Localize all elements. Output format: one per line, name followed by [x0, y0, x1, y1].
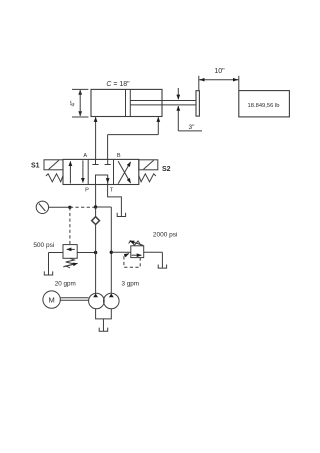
- svg-text:3": 3": [189, 124, 196, 131]
- svg-text:S1: S1: [31, 162, 40, 169]
- svg-text:A: A: [83, 153, 87, 159]
- svg-text:10": 10": [214, 68, 225, 75]
- svg-text:C = 18": C = 18": [106, 81, 130, 88]
- svg-text:500 psi: 500 psi: [33, 242, 54, 249]
- svg-text:M: M: [48, 295, 54, 304]
- svg-text:3 gpm: 3 gpm: [121, 281, 139, 288]
- svg-text:18.849,56 lb: 18.849,56 lb: [248, 103, 280, 109]
- svg-text:4": 4": [70, 100, 77, 107]
- svg-text:B: B: [117, 153, 121, 159]
- svg-text:T: T: [110, 187, 114, 193]
- svg-text:P: P: [85, 187, 89, 193]
- svg-text:S2: S2: [162, 166, 171, 173]
- svg-text:20 gpm: 20 gpm: [55, 281, 76, 288]
- svg-text:2000 psi: 2000 psi: [153, 231, 178, 238]
